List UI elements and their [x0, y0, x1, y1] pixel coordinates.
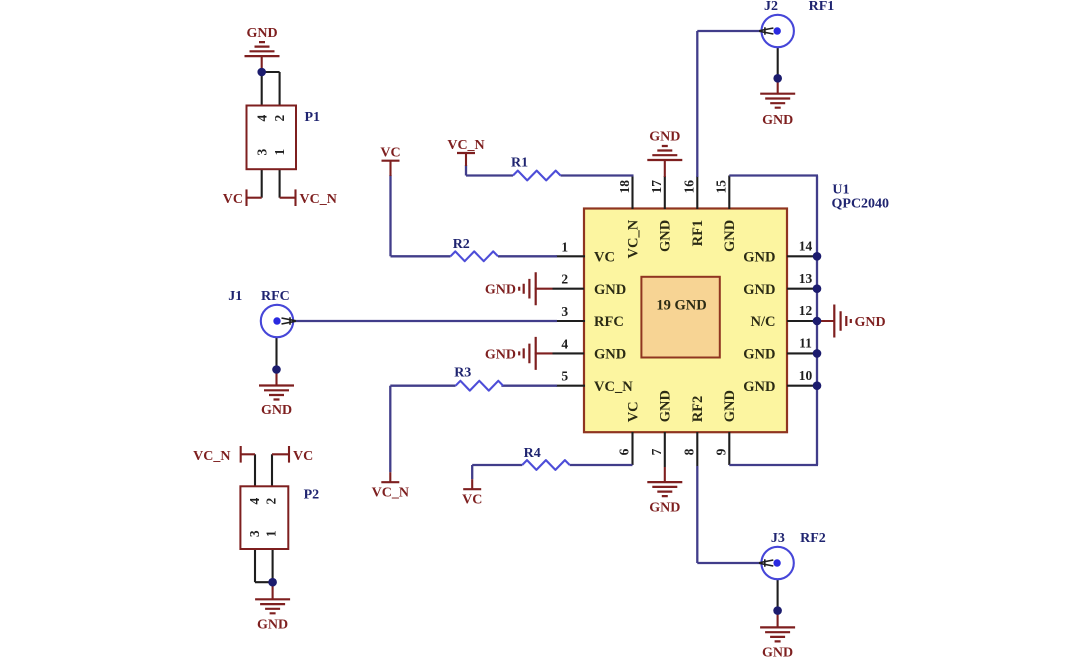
- svg-text:7: 7: [649, 448, 664, 455]
- svg-text:GND: GND: [649, 501, 680, 516]
- svg-text:15: 15: [714, 180, 729, 194]
- svg-text:J2: J2: [764, 0, 778, 14]
- svg-text:11: 11: [799, 336, 812, 351]
- svg-text:16: 16: [682, 180, 697, 194]
- svg-text:RF1: RF1: [690, 220, 706, 247]
- svg-text:GND: GND: [485, 283, 516, 298]
- svg-text:GND: GND: [743, 347, 775, 363]
- svg-text:VC: VC: [380, 146, 400, 161]
- svg-text:VC_N: VC_N: [193, 449, 230, 464]
- svg-text:GND: GND: [649, 130, 680, 145]
- svg-text:P2: P2: [304, 488, 320, 503]
- svg-text:13: 13: [799, 271, 813, 286]
- svg-text:4: 4: [254, 115, 269, 122]
- svg-text:N/C: N/C: [751, 314, 776, 330]
- svg-text:9: 9: [713, 448, 728, 455]
- svg-text:J1: J1: [228, 289, 242, 304]
- svg-text:8: 8: [681, 448, 696, 455]
- svg-text:3: 3: [254, 149, 269, 156]
- svg-text:18: 18: [617, 180, 632, 194]
- svg-text:2: 2: [272, 115, 287, 122]
- svg-text:1: 1: [272, 149, 287, 156]
- svg-text:VC: VC: [594, 250, 615, 266]
- svg-text:GND: GND: [261, 403, 292, 418]
- svg-text:2: 2: [264, 498, 279, 505]
- svg-text:3: 3: [247, 530, 262, 537]
- svg-text:4: 4: [561, 336, 568, 351]
- svg-text:GND: GND: [743, 250, 775, 266]
- svg-text:VC_N: VC_N: [372, 486, 409, 501]
- svg-text:RF1: RF1: [809, 0, 835, 14]
- svg-text:VC_N: VC_N: [447, 138, 484, 153]
- svg-text:10: 10: [799, 368, 813, 383]
- svg-text:VC: VC: [293, 449, 313, 464]
- svg-text:VC: VC: [625, 401, 641, 422]
- svg-text:2: 2: [561, 272, 568, 287]
- svg-text:GND: GND: [762, 646, 793, 657]
- svg-text:RFC: RFC: [594, 314, 624, 330]
- svg-text:GND: GND: [762, 113, 793, 128]
- svg-text:VC: VC: [223, 192, 243, 207]
- svg-text:GND: GND: [658, 390, 674, 422]
- svg-text:VC: VC: [462, 493, 482, 508]
- svg-text:14: 14: [799, 239, 813, 254]
- svg-text:RF2: RF2: [800, 531, 826, 546]
- svg-text:GND: GND: [594, 282, 626, 298]
- svg-text:GND: GND: [658, 220, 674, 252]
- svg-text:GND: GND: [722, 220, 738, 252]
- svg-text:R3: R3: [454, 366, 471, 381]
- svg-text:VC_N: VC_N: [625, 219, 641, 258]
- svg-text:1: 1: [264, 530, 279, 537]
- svg-text:GND: GND: [594, 347, 626, 363]
- svg-text:R1: R1: [511, 156, 528, 171]
- svg-text:GND: GND: [722, 390, 738, 422]
- svg-text:RFC: RFC: [261, 289, 290, 304]
- svg-text:17: 17: [649, 180, 664, 194]
- svg-text:U1: U1: [832, 183, 849, 198]
- svg-text:1: 1: [561, 239, 568, 254]
- svg-text:R2: R2: [453, 237, 470, 252]
- svg-text:4: 4: [247, 498, 262, 505]
- svg-text:5: 5: [561, 369, 568, 384]
- svg-text:J3: J3: [771, 531, 785, 546]
- svg-text:P1: P1: [305, 110, 321, 125]
- svg-text:GND: GND: [246, 26, 277, 41]
- svg-text:GND: GND: [743, 282, 775, 298]
- svg-text:GND: GND: [743, 379, 775, 395]
- svg-text:GND: GND: [855, 315, 886, 330]
- svg-text:12: 12: [799, 303, 813, 318]
- svg-text:R4: R4: [524, 446, 541, 461]
- svg-text:GND: GND: [257, 618, 288, 633]
- svg-text:QPC2040: QPC2040: [832, 197, 890, 212]
- svg-text:3: 3: [561, 304, 568, 319]
- svg-text:VC_N: VC_N: [594, 379, 633, 395]
- svg-text:RF2: RF2: [690, 396, 706, 423]
- svg-text:GND: GND: [485, 347, 516, 362]
- svg-text:19 GND: 19 GND: [656, 298, 706, 314]
- svg-text:VC_N: VC_N: [300, 192, 337, 207]
- svg-text:6: 6: [617, 448, 632, 455]
